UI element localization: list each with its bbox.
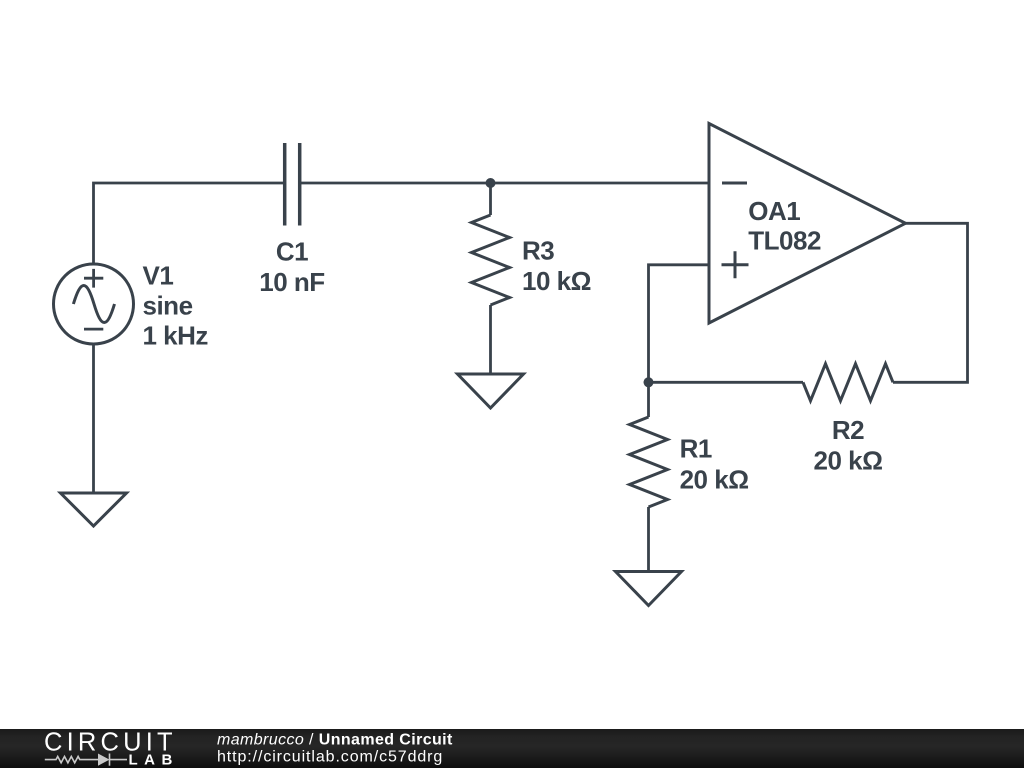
svg-text:LAB: LAB (129, 751, 179, 768)
node B (644, 377, 654, 387)
ground (61, 493, 127, 526)
resistor R3 (472, 183, 510, 374)
wire (649, 265, 710, 383)
ground (616, 572, 682, 606)
wire (94, 183, 285, 264)
resistor R2 (803, 364, 893, 401)
CircuitLab logo (44, 728, 179, 768)
node A (486, 178, 496, 188)
voltage source V1 (54, 264, 134, 344)
ground (458, 374, 524, 408)
wire (301, 182, 709, 185)
wire (893, 223, 968, 382)
wire (92, 344, 95, 493)
footer watermark bar (0, 729, 1024, 768)
resistor R1 (630, 382, 668, 571)
wire (649, 381, 804, 384)
capacitor C1 (285, 143, 300, 226)
svg-text:http://circuitlab.com/c57ddrg: http://circuitlab.com/c57ddrg (217, 748, 443, 765)
op-amp OA1 (709, 124, 906, 324)
svg-text:mambrucco / Unnamed Circuit: mambrucco / Unnamed Circuit (217, 731, 453, 748)
footer title text (217, 731, 453, 765)
